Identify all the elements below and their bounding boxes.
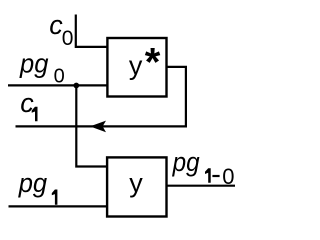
arrowhead on c1 wire pointing left bbox=[90, 121, 106, 133]
cell U2 (y) bbox=[107, 157, 166, 216]
svg-text:pg: pg bbox=[172, 147, 200, 177]
junction dot on pg0 bbox=[73, 83, 79, 89]
svg-text:pg: pg bbox=[19, 48, 48, 78]
digit 1 subscript of pg1 (custom glyph) bbox=[52, 190, 58, 205]
svg-text:0: 0 bbox=[54, 65, 65, 87]
svg-text:c: c bbox=[20, 88, 34, 118]
svg-text:y: y bbox=[129, 168, 143, 198]
svg-text:0: 0 bbox=[62, 27, 74, 50]
svg-text:pg: pg bbox=[18, 168, 47, 198]
wire pg1-0 output from U2 bbox=[167, 185, 236, 187]
digit 1 of subscript 1-0 (custom glyph) bbox=[205, 168, 211, 183]
wire c0 input (down then right into U1) bbox=[76, 15, 108, 47]
digit 1 subscript of c1 (custom glyph) bbox=[32, 107, 38, 121]
wire branch from pg0 junction down to U2 bbox=[76, 85, 107, 166]
hyphen of subscript 1-0 bbox=[212, 175, 219, 177]
wire pg1 input into U2 bbox=[9, 205, 108, 207]
svg-text:*: * bbox=[145, 41, 161, 85]
cell U1 (y*) bbox=[107, 38, 166, 97]
wire c1 feedback from U1 output (right, down, left) bbox=[16, 67, 186, 127]
wire pg0 input into U1 bbox=[8, 84, 107, 86]
svg-text:y: y bbox=[129, 50, 143, 80]
svg-text:0: 0 bbox=[222, 164, 234, 189]
